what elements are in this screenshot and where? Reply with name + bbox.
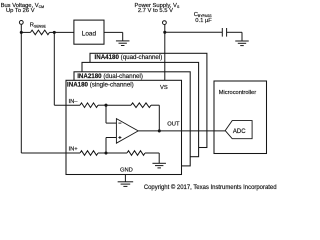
svg-text:IN–: IN– bbox=[69, 99, 79, 105]
svg-text:Load: Load bbox=[82, 30, 97, 37]
svg-text:Microcontroller: Microcontroller bbox=[219, 90, 256, 96]
svg-text:ADC: ADC bbox=[233, 129, 246, 135]
svg-text:OUT: OUT bbox=[167, 122, 180, 128]
svg-text:INA2180 (dual-channel): INA2180 (dual-channel) bbox=[77, 73, 143, 80]
svg-text:VS: VS bbox=[160, 85, 168, 91]
svg-text:IN+: IN+ bbox=[69, 146, 79, 152]
svg-text:Copyright © 2017, Texas Instru: Copyright © 2017, Texas Instruments Inco… bbox=[144, 184, 277, 191]
svg-text:2.7 V to 5.5 V: 2.7 V to 5.5 V bbox=[138, 8, 173, 14]
svg-text:0.1 µF: 0.1 µF bbox=[195, 18, 212, 24]
svg-text:Up To 26 V: Up To 26 V bbox=[6, 8, 35, 14]
svg-text:INA180 (single-channel): INA180 (single-channel) bbox=[67, 81, 134, 88]
svg-text:GND: GND bbox=[120, 168, 133, 174]
svg-text:INA4180 (quad-channel): INA4180 (quad-channel) bbox=[95, 54, 163, 61]
